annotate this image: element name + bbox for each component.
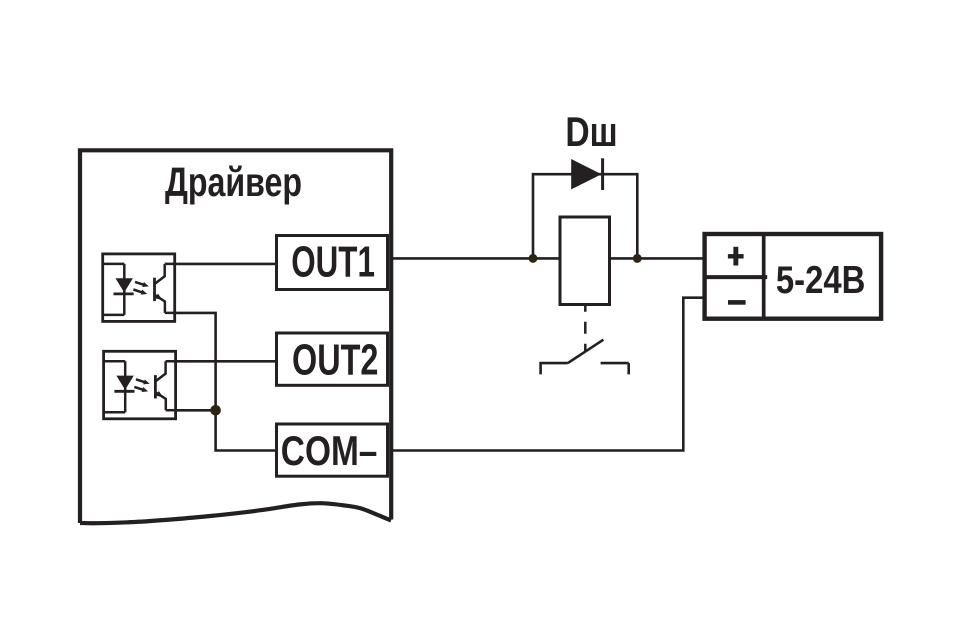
dashed mechanical link to switch xyxy=(584,306,587,352)
power terminal divider horizontal xyxy=(703,275,767,279)
optocoupler U2 phototransistor base bar xyxy=(153,278,156,301)
svg-text:Драйвер: Драйвер xyxy=(165,159,302,205)
optocoupler U3 (lower) xyxy=(104,351,176,419)
driver block box (Драйвер) with torn bottom edge xyxy=(80,150,391,523)
optocoupler U2 LED triangle xyxy=(116,278,133,292)
junction node dot (common emitter) xyxy=(210,405,221,416)
optocoupler U2 stubs to pins xyxy=(165,264,175,313)
optocoupler U2 (upper) xyxy=(103,254,175,322)
minus terminal symbol xyxy=(728,300,746,305)
svg-text:OUT1: OUT1 xyxy=(291,237,375,286)
optocoupler U3 phototransistor emitter xyxy=(156,393,166,411)
wire load to power terminal + xyxy=(610,257,703,260)
svg-text:Dш: Dш xyxy=(565,108,617,155)
optocoupler U3 phototransistor base bar xyxy=(154,375,157,398)
load box (inductive load) xyxy=(560,217,610,305)
plus terminal symbol xyxy=(728,247,744,266)
wire opto U2 collector to OUT1 xyxy=(173,263,277,266)
optocoupler U2 light arrow 1 xyxy=(134,279,149,288)
optocoupler U2 LED leads xyxy=(103,264,125,315)
optocoupler U2 light arrow 2 xyxy=(133,287,148,296)
optocoupler U3 light arrow 2 xyxy=(133,384,148,393)
wire COM- to power terminal minus xyxy=(390,298,703,451)
terminal box OUT1 xyxy=(277,236,388,290)
svg-text:COM–: COM– xyxy=(281,427,378,474)
switch S (load contact) xyxy=(541,340,629,375)
wire OUT1 to load (positive rail) xyxy=(390,257,561,260)
optocoupler U2 LED cathode bar xyxy=(114,292,134,295)
junction dot right of load xyxy=(633,254,642,263)
terminal box COM- xyxy=(277,424,388,476)
power terminal divider vertical xyxy=(762,233,766,321)
optocoupler U3 package xyxy=(104,351,176,419)
wire flyback diode loop xyxy=(533,174,637,258)
optocoupler U2 phototransistor collector xyxy=(155,264,165,284)
terminal box OUT2 xyxy=(277,333,388,385)
optocoupler U3 emitter arrowhead xyxy=(156,391,165,400)
optocoupler U3 phototransistor collector xyxy=(156,361,166,381)
optocoupler U2 phototransistor emitter xyxy=(155,295,165,313)
wire opto U3 collector to OUT2 xyxy=(174,360,277,363)
optocoupler U2 emitter arrowhead xyxy=(155,294,164,303)
optocoupler U3 LED leads xyxy=(104,361,126,412)
diode Dш cathode bar xyxy=(601,158,604,190)
svg-text:5-24В: 5-24В xyxy=(776,259,866,302)
power terminal block outer box xyxy=(705,234,882,319)
diode Dш triangle xyxy=(571,159,601,189)
optocoupler U3 LED cathode bar xyxy=(114,390,134,393)
optocoupler U2 package xyxy=(103,254,175,322)
optocoupler U3 light arrow 1 xyxy=(135,377,150,386)
wire opto U3 emitter to node xyxy=(176,409,216,412)
optocoupler U3 stubs to pins xyxy=(166,361,176,410)
svg-text:OUT2: OUT2 xyxy=(292,335,378,384)
junction dot left of load xyxy=(529,254,538,263)
optocoupler U3 LED triangle xyxy=(116,376,133,390)
wire opto U2 emitter down to node and COM- xyxy=(173,313,277,451)
